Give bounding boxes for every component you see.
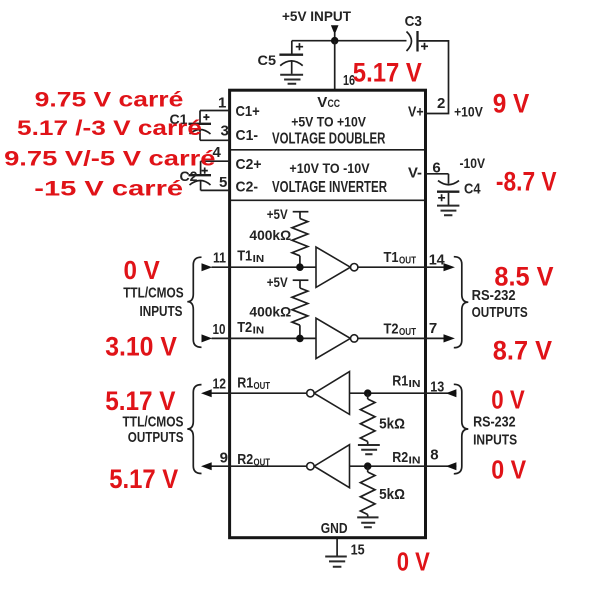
+5V tick (T1 pull-up) (293, 211, 309, 213)
wire pin 5 C2- (201, 189, 230, 191)
brace RS-232 outputs (454, 257, 469, 348)
node R1 input junction (364, 389, 372, 397)
svg-text:400kΩ: 400kΩ (249, 303, 291, 319)
svg-text:5.17 V: 5.17 V (353, 58, 422, 88)
svg-text:12: 12 (213, 376, 227, 393)
svg-text:6: 6 (432, 160, 440, 177)
svg-text:R1: R1 (392, 373, 408, 390)
svg-text:9 V: 9 V (493, 89, 530, 119)
IC T1OUT pin label (384, 249, 417, 267)
svg-text:R2: R2 (237, 451, 253, 468)
svg-text:+5V: +5V (267, 274, 288, 290)
wire +5V rail (292, 40, 407, 42)
IC R1IN pin label (392, 373, 420, 391)
svg-text:+5V TO +10V: +5V TO +10V (291, 114, 366, 130)
arrow into R2IN (446, 462, 457, 470)
svg-text:11: 11 (213, 250, 226, 267)
svg-text:9: 9 (220, 450, 228, 467)
IC U1 section divider 2 (231, 199, 424, 201)
wire R1 input pin 13 (350, 392, 457, 394)
svg-text:V+: V+ (408, 104, 424, 121)
svg-text:0 V: 0 V (397, 546, 431, 576)
svg-text:GND: GND (321, 520, 348, 537)
node T2 input junction (296, 335, 304, 343)
svg-text:R1: R1 (237, 374, 253, 391)
svg-text:0 V: 0 V (491, 454, 526, 484)
svg-text:OUT: OUT (254, 380, 271, 392)
ground pin 15 (325, 557, 347, 567)
svg-text:OUTPUTS: OUTPUTS (472, 304, 528, 321)
IC U1 section divider 1 (231, 149, 424, 151)
IC U1 outline (230, 90, 426, 538)
svg-text:C5: C5 (258, 52, 277, 68)
svg-text:0 V: 0 V (124, 255, 161, 285)
brace TTL/CMOS outputs (187, 385, 201, 474)
svg-text:VOLTAGE DOUBLER: VOLTAGE DOUBLER (272, 131, 385, 148)
RS-232 OUTPUTS label (472, 287, 528, 321)
arrow out of R1OUT (201, 389, 212, 397)
svg-text:5.17 /-3 V carré: 5.17 /-3 V carré (17, 117, 202, 140)
IC R2IN pin label (392, 449, 420, 467)
+5V tick (T2 pull-up) (293, 279, 309, 281)
wire GND pin 15 (336, 539, 338, 556)
wire T1 input pin 11 (212, 266, 317, 268)
op-amp inverter T2 (316, 318, 358, 358)
svg-text:9.75 V carré: 9.75 V carré (35, 88, 184, 111)
svg-text:3.10 V: 3.10 V (105, 332, 177, 362)
svg-text:OUT: OUT (399, 255, 416, 267)
svg-text:IN: IN (409, 378, 421, 390)
svg-text:8: 8 (430, 447, 438, 464)
wire pin 4 C2+ (201, 160, 230, 162)
svg-text:CC: CC (328, 98, 341, 110)
svg-text:2: 2 (437, 95, 445, 112)
wire C3 to V+ pin 2 (419, 41, 449, 114)
svg-text:OUT: OUT (254, 457, 271, 469)
resistor 5k R2 (360, 466, 375, 516)
arrow out of T1OUT (444, 263, 455, 271)
arrow into T1IN (202, 263, 213, 271)
svg-text:5kΩ: 5kΩ (379, 486, 405, 503)
brace RS-232 inputs (454, 384, 469, 474)
capacitor C5 (279, 41, 303, 74)
svg-text:V: V (317, 94, 327, 111)
IC inverter title (272, 160, 387, 196)
IC T2IN pin label (237, 319, 264, 337)
svg-text:10: 10 (213, 321, 226, 338)
svg-text:13: 13 (430, 379, 444, 396)
wire T2 output pin 7 (358, 337, 445, 339)
RS-232 INPUTS label (473, 413, 517, 448)
IC T1IN pin label (237, 248, 264, 266)
svg-text:-15 V carré: -15 V carré (34, 178, 183, 201)
arrow into R1IN (446, 389, 457, 397)
node R2 input junction (364, 462, 372, 470)
op-amp inverter R1 (307, 372, 350, 415)
arrow out of R2OUT (201, 462, 212, 470)
svg-text:C1-: C1- (236, 127, 259, 144)
ground C4 (437, 206, 459, 216)
svg-text:15: 15 (351, 542, 365, 559)
resistor 400k T2 pull-up (292, 280, 308, 338)
+5V input arrow (331, 25, 339, 40)
svg-text:+5V: +5V (267, 206, 288, 222)
svg-text:5.17 V: 5.17 V (105, 386, 175, 416)
svg-text:IN: IN (253, 324, 265, 336)
svg-text:0 V: 0 V (491, 385, 525, 415)
svg-text:C1+: C1+ (236, 103, 261, 120)
arrow into T2IN (202, 334, 213, 342)
svg-text:C2-: C2- (236, 179, 259, 196)
svg-text:C2+: C2+ (236, 156, 262, 173)
svg-text:R2: R2 (392, 449, 408, 466)
wire R2 output pin 9 (212, 465, 307, 467)
capacitor C2 (189, 161, 212, 190)
svg-text:VOLTAGE INVERTER: VOLTAGE INVERTER (272, 179, 387, 196)
IC doubler title (272, 114, 385, 148)
wire R1 output pin 12 (212, 392, 307, 394)
svg-text:+10V TO -10V: +10V TO -10V (289, 160, 370, 176)
wire VCC pin 16 (334, 41, 336, 89)
svg-text:T2: T2 (384, 321, 399, 338)
svg-text:5kΩ: 5kΩ (379, 416, 405, 433)
node T1 input junction (296, 263, 304, 271)
capacitor C3 (407, 31, 429, 52)
IC R1OUT pin label (237, 374, 270, 392)
wire pin 1 C1+ (200, 110, 230, 112)
wire pin 3 C1- (200, 139, 230, 141)
svg-text:+5V INPUT: +5V INPUT (282, 8, 351, 24)
TTL/CMOS OUTPUTS label (123, 414, 184, 446)
node +5V input junction (331, 37, 339, 45)
svg-text:1: 1 (218, 95, 226, 112)
op-amp inverter T1 (316, 247, 358, 287)
svg-text:TTL/CMOS: TTL/CMOS (123, 285, 183, 302)
wire T1 output pin 14 (358, 266, 445, 268)
svg-text:5.17 V: 5.17 V (109, 464, 178, 494)
op-amp inverter R2 (307, 445, 350, 488)
svg-text:T2: T2 (237, 319, 252, 336)
svg-text:OUT: OUT (399, 326, 416, 338)
svg-text:RS-232: RS-232 (473, 413, 515, 430)
svg-text:8.7 V: 8.7 V (493, 336, 552, 366)
svg-text:C3: C3 (405, 13, 422, 30)
svg-text:OUTPUTS: OUTPUTS (128, 429, 184, 446)
svg-text:14: 14 (429, 252, 446, 269)
brace TTL/CMOS inputs (187, 257, 201, 347)
ground R2 5k (357, 517, 378, 527)
svg-text:IN: IN (253, 253, 265, 265)
wire R2 input pin 8 (350, 465, 457, 467)
capacitor C4 (437, 174, 459, 205)
svg-text:400kΩ: 400kΩ (249, 227, 291, 243)
IC T2OUT pin label (384, 321, 417, 339)
svg-text:INPUTS: INPUTS (140, 303, 183, 320)
arrow out of T2OUT (444, 334, 455, 342)
svg-text:T1: T1 (384, 249, 399, 266)
svg-text:+10V: +10V (454, 104, 483, 120)
svg-text:3: 3 (221, 123, 229, 140)
resistor 5k R1 (360, 393, 375, 444)
svg-text:9.75 V/-5 V carré: 9.75 V/-5 V carré (4, 148, 215, 171)
svg-text:8.5 V: 8.5 V (494, 262, 553, 292)
ground C5 (280, 75, 303, 84)
capacitor C1 (189, 111, 212, 141)
svg-text:-8.7 V: -8.7 V (496, 167, 557, 197)
svg-text:7: 7 (429, 320, 437, 337)
ground R1 5k (358, 445, 380, 454)
TTL/CMOS INPUTS label (123, 285, 183, 321)
resistor 400k T1 pull-up (292, 212, 308, 268)
IC VCC pin label (317, 94, 340, 111)
svg-text:INPUTS: INPUTS (473, 432, 517, 449)
IC R2OUT pin label (237, 451, 270, 469)
svg-text:T1: T1 (237, 248, 252, 265)
svg-text:IN: IN (409, 455, 421, 467)
wire pin 6 V- (426, 173, 449, 175)
svg-text:C4: C4 (464, 181, 481, 198)
svg-text:5: 5 (219, 174, 227, 191)
svg-text:-10V: -10V (460, 155, 486, 171)
wire T2 input pin 10 (212, 337, 317, 339)
svg-text:V-: V- (408, 165, 422, 182)
